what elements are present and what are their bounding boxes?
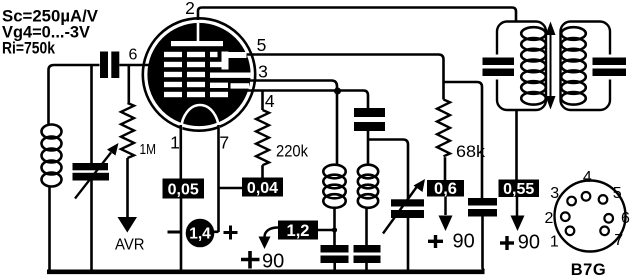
wire: 0,05 box to ground bus [180,199,183,271]
tube V1 screen-grid bracket (rows 1-2 tie, to pin 5) [222,52,247,70]
capacitor box 0,05 [163,179,205,199]
wire: 220k to capacitor box 0,04 [261,165,264,178]
svg-text:4: 4 [265,91,275,111]
svg-text:0,04: 0,04 [247,180,278,197]
tube V1 filament/cathode [181,105,219,131]
wire: C3 to ground bus [333,263,336,270]
svg-text:1,4: 1,4 [189,226,211,243]
svg-text:0,55: 0,55 [503,181,534,198]
resistor R2 220k [256,110,269,165]
wire: pin 7 down to filament battery [217,125,220,232]
arrow: 0,55 to +90 supply [511,197,525,231]
svg-text:6: 6 [621,210,630,227]
wire: junction pin7 to 0,04 box [219,187,243,190]
capacitor box 0,6 [427,180,464,198]
svg-text:1M: 1M [140,141,157,158]
white gap for capacitor C8 on capsule edge [493,55,501,80]
wire: tuning capacitor branch [90,65,93,163]
capacitor C3 (IFT1 primary bypass) [321,245,349,263]
svg-text:6: 6 [129,46,138,63]
node junction primary/feed [332,227,337,232]
wire: secondary coil bottom [365,208,368,245]
capacitor box 0,55 [499,180,540,198]
plus polarity mark [224,226,238,240]
svg-text:1: 1 [170,133,180,153]
tube V1 grid row 1 [164,52,218,57]
IF transformer 2 primary loop (capsule) [497,22,546,111]
supply label +90 (under 0,55) [500,231,540,253]
capacitor C4 (IFT1 top coupling) [354,108,385,131]
wire: grid input line (pin 6 to tuned circuit) [49,65,100,126]
resistor R1 1M (grid leak) [121,66,134,218]
wire: pin 2 (anode) to IF transformer 2 [198,8,516,22]
tube V1 envelope [143,18,255,130]
wire: pin 1 down to 0,05 box [180,125,183,179]
variable capacitor C1 (tuning) [73,143,119,199]
capacitor C9 (IFT2 secondary) [593,58,627,77]
svg-text:1,2: 1,2 [287,222,310,240]
capacitor C2 (grid coupling) [100,52,119,79]
B7G pin holes [561,192,613,235]
wire: variable capacitor C1 to ground bus [90,181,93,271]
IF transformer 2 secondary coil [561,27,586,104]
antenna coil L1 [42,125,62,187]
wire: pin 4 line to top capacitor of IFT1 [248,91,369,109]
wire: ground bus [47,269,485,274]
capacitor box 1,2 [278,221,318,241]
arrow: 0,6 to +90 supply [439,197,453,232]
capacitor C7 (screen decoupling) [468,198,497,217]
svg-text:5: 5 [613,185,622,202]
svg-text:B7G: B7G [571,261,606,279]
white gap for capacitor C9 on capsule edge [606,55,614,80]
svg-text:7: 7 [614,232,623,249]
svg-text:90: 90 [262,251,284,273]
node junction pin3/pin4 lines [334,88,341,95]
svg-text:220k: 220k [276,142,308,161]
capacitor C8 (IFT2 primary) [483,58,515,77]
wire: C7 to ground bus [483,217,485,271]
svg-text:2: 2 [545,210,554,227]
svg-text:4: 4 [583,169,592,186]
svg-text:1: 1 [550,234,559,251]
capacitor box 0,04 [242,178,283,198]
resistor R3 68k [437,100,450,157]
tube V1 anode lead (white, to pin 2) [197,23,200,41]
svg-text:AVR: AVR [115,237,145,254]
wire: C4 to secondary coil top [367,131,370,166]
wire: 68k to 0,6 box [444,157,447,180]
tube V1 grid row 5 [164,92,228,97]
tube V1 anode plate [171,41,223,46]
arrow: 1,2 feed to +90 supply [259,228,279,250]
IF transformer 1 primary coil [323,165,345,208]
B7G pin number labels [545,169,631,250]
IF transformer 2 primary coil [521,27,546,104]
wire: branch from pin 5 line to decoupling capacitor [444,82,483,198]
wire: feed from 1,2 box to primary bottom [318,229,335,232]
IF transformer 2 secondary loop (capsule) [561,22,611,111]
wire: battery stub to pin 7 line [214,231,219,234]
wire: coil L1 bottom to ground bus [48,186,51,271]
IF transformer 1 secondary coil [358,165,378,208]
coupling adjustment arrow [546,22,556,110]
battery B1 1,4V filament cell [186,219,215,248]
svg-text:90: 90 [453,231,475,253]
svg-text:5: 5 [257,35,267,55]
wire: pin 3 to IF transformer 1 primary [249,81,337,166]
supply label +90 (under 0,6) [428,231,475,253]
svg-text:7: 7 [219,133,229,153]
minus polarity mark [168,231,182,234]
svg-text:0,05: 0,05 [168,182,199,199]
AVR arrow (AGC line) [118,217,138,233]
wire: IFT2 primary bottom to 0,55 box [515,110,518,180]
svg-text:3: 3 [258,62,268,82]
supply label +90 (under 1,2) [241,251,284,273]
svg-text:0,6: 0,6 [434,180,457,198]
svg-text:90: 90 [518,231,540,253]
tube V1 grid row 3 (with lead to pin 3) [164,72,251,78]
tube V1 grid row 4 (with lead to pin 4) [164,82,249,89]
wire: coupling capacitor to tube pin 6 [119,64,148,67]
tube V1 grid row 2 [164,62,222,67]
wire: pin 5 to 68k resistor [247,55,444,100]
wire: pin 4 stub down to 220k [261,92,264,111]
B7G base outline [555,181,626,252]
variable capacitor C5 (IF trimmer) [383,179,425,234]
svg-text:3: 3 [550,185,559,202]
svg-text:2: 2 [185,0,195,18]
capacitor C6 (IFT1 secondary to ground) [354,245,381,263]
wire: C5 to ground bus [407,218,410,270]
wire: branch to variable capacitor C5 [368,140,408,200]
svg-text:Ri=750k: Ri=750k [2,39,56,57]
wire: C6 to ground bus [365,263,368,270]
wire: IFT1 primary bottom [333,208,336,245]
svg-text:68k: 68k [456,142,486,161]
